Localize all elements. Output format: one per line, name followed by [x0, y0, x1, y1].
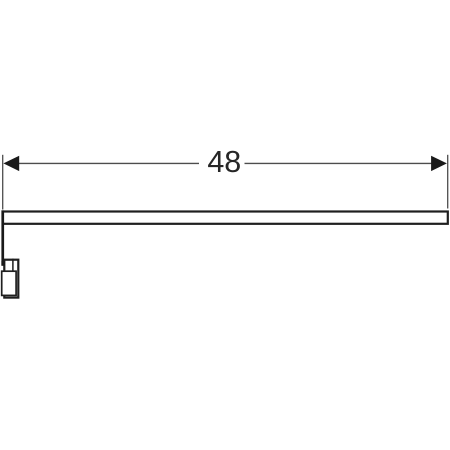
- arrowhead right: [431, 156, 447, 171]
- bracket inner plate: [2, 271, 16, 295]
- svg-text:48: 48: [207, 145, 241, 179]
- bar (rail profile): [3, 212, 448, 224]
- support foot: [1, 261, 4, 266]
- bracket outer box: [4, 260, 18, 298]
- extension line right: [447, 155, 449, 209]
- dimension line right segment: [245, 162, 434, 164]
- bracket divider: [12, 259, 14, 272]
- arrowhead left: [3, 156, 19, 171]
- support stem: [1, 210, 4, 265]
- dimension line left segment: [17, 162, 199, 164]
- extension line left: [2, 155, 4, 210]
